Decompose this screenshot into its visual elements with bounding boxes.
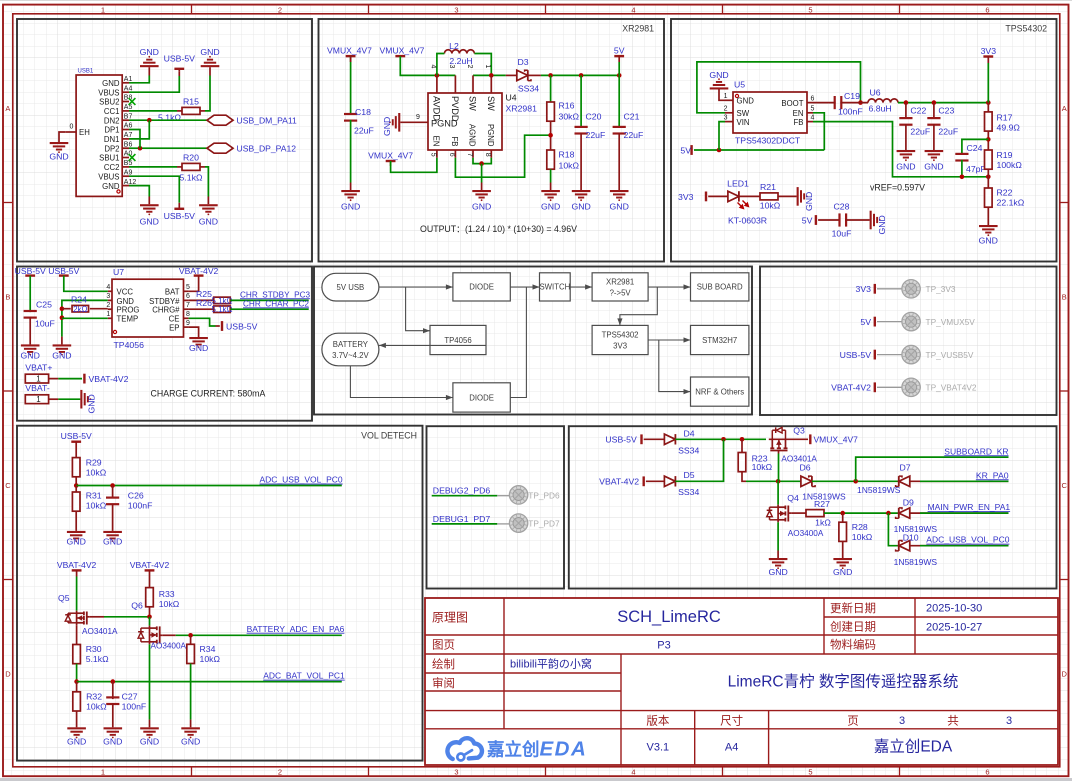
svg-text:TP4056: TP4056 [114, 340, 145, 350]
svg-text:5: 5 [430, 153, 437, 157]
svg-text:尺寸: 尺寸 [720, 714, 743, 728]
svg-text:GND: GND [103, 736, 122, 746]
svg-text:GND: GND [200, 47, 219, 57]
svg-text:AO3400A: AO3400A [151, 641, 187, 650]
wire VMUX to AVDD [400, 56, 455, 75]
flow BATTERY->DIODE2 [350, 366, 453, 398]
block DIODE (top) [453, 273, 510, 301]
chip U5 pin1 marker [735, 94, 738, 97]
svg-text:AO3401A: AO3401A [82, 627, 118, 636]
svg-text:GND: GND [181, 736, 200, 746]
U7 pin 7 lead [184, 308, 189, 310]
flow TPS->NRF [659, 340, 691, 392]
capacitor C26 [106, 497, 119, 499]
wire R29 to node [75, 477, 77, 486]
wire D10 to ADC [910, 545, 1009, 547]
svg-text:3: 3 [724, 114, 728, 121]
svg-text:7: 7 [186, 302, 190, 309]
frame column tick [191, 5, 193, 14]
power stem USB-5V bottom [178, 203, 180, 209]
svg-text:USB-5V: USB-5V [48, 266, 79, 276]
svg-text:C27: C27 [122, 692, 138, 702]
power flag VBAT-4V2 (D5) [643, 476, 645, 486]
wire ADC_USB_VOL_PC0 [76, 485, 342, 487]
testpoint lead TP_3V3 [877, 288, 902, 290]
power flag VBAT-4V2 (VBAT+) [83, 374, 85, 384]
testpoint lead TP_VUSB5V [877, 354, 902, 356]
svg-text:C26: C26 [128, 491, 144, 501]
resistor R15 lead right [200, 110, 205, 112]
svg-text:1: 1 [101, 5, 105, 14]
svg-text:6: 6 [985, 768, 989, 777]
wire GND A12 [129, 186, 149, 197]
LED LED1 arrows [738, 201, 749, 209]
wire U6 to 3V3 rail [898, 102, 988, 104]
panel box block-diagram [314, 267, 752, 415]
resistor R25 [214, 297, 231, 304]
GND stem (Q6) [149, 720, 151, 728]
diode D7 1N5819WS [899, 476, 910, 486]
power stem VBAT Q5 [76, 570, 78, 576]
svg-text:CHR_STDBY_PC3: CHR_STDBY_PC3 [240, 290, 311, 299]
testpoint pad TP_PD7 [509, 514, 527, 532]
wire R34 to GND [190, 664, 192, 720]
svg-text:GND: GND [140, 47, 159, 57]
block BATTERY (stadium) [322, 333, 379, 366]
svg-text:3: 3 [1006, 715, 1012, 727]
wire R30 to node [76, 664, 78, 682]
svg-text:XR2981: XR2981 [622, 24, 654, 34]
ground (R18) [541, 190, 560, 192]
svg-text:USB-5V: USB-5V [61, 431, 92, 441]
wire R15 to GND [205, 76, 210, 111]
svg-text:R16: R16 [559, 101, 575, 111]
svg-text:VBAT-4V2: VBAT-4V2 [57, 560, 97, 570]
junction C21/5V node [617, 73, 622, 78]
resistor R24 [72, 305, 89, 312]
svg-text:USB1: USB1 [78, 69, 94, 75]
ground (EH) [50, 142, 69, 144]
svg-text:SUBBOARD_KR: SUBBOARD_KR [944, 446, 1008, 456]
svg-text:R27: R27 [814, 499, 830, 509]
svg-text:D: D [5, 670, 11, 679]
svg-text:10kΩ: 10kΩ [200, 654, 221, 664]
svg-text:SBU1: SBU1 [99, 154, 119, 163]
transistor Q4 AO3400A [777, 505, 779, 523]
resistor R22 [985, 188, 993, 207]
svg-text:10kΩ: 10kΩ [86, 702, 107, 712]
svg-text:A1: A1 [124, 76, 133, 83]
junction SUBBOARD node [853, 479, 858, 484]
junction C19/U6 node [858, 100, 863, 105]
svg-text:5: 5 [186, 284, 190, 291]
U4 pin 6 lead [454, 150, 456, 158]
svg-text:GND: GND [189, 343, 208, 353]
svg-text:DEBUG1_PD7: DEBUG1_PD7 [433, 514, 491, 524]
svg-text:GND: GND [341, 202, 360, 212]
svg-text:C: C [5, 481, 11, 490]
svg-text:USB-5V: USB-5V [226, 321, 258, 331]
JLC EDA logo cloud [447, 738, 482, 760]
testpoint pad TP_VBAT4V2 [902, 378, 920, 396]
svg-text:100nF: 100nF [122, 702, 147, 712]
U5 pin 5 lead [807, 112, 813, 114]
wire Q6 gate net [176, 634, 342, 636]
frame column tick [368, 5, 370, 14]
GND stem (top1) [148, 67, 150, 75]
flow XR2981->SUBBOARD [648, 286, 690, 288]
wire KR_PA0 green [920, 480, 1009, 482]
svg-text:TP_PD6: TP_PD6 [528, 490, 560, 500]
wire Q6 source to GND [149, 644, 151, 719]
power flag 5V (C28) [815, 215, 817, 225]
svg-text:R20: R20 [183, 153, 199, 163]
wire output rail [541, 74, 619, 76]
svg-text:?->5V: ?->5V [610, 288, 632, 297]
svg-text:USB-5V: USB-5V [164, 211, 196, 221]
title block line [425, 690, 621, 692]
svg-text:GND: GND [87, 394, 97, 413]
title block line [694, 711, 696, 765]
svg-text:C21: C21 [624, 111, 640, 121]
wire Q4 drain [777, 481, 779, 504]
svg-text:VMUX_4V7: VMUX_4V7 [368, 150, 413, 160]
power flag USB-5V (C25) [25, 274, 35, 276]
diode D3 lead right [528, 74, 541, 76]
capacitor C20 [575, 126, 588, 128]
ground (pin9) sideways [398, 113, 400, 132]
U4 pin 8 lead [490, 150, 492, 158]
svg-text:1kΩ: 1kΩ [815, 517, 831, 527]
wire C22 to GND [905, 124, 907, 150]
svg-text:VBAT-4V2: VBAT-4V2 [179, 266, 219, 276]
U7 pin 1 lead [108, 317, 112, 319]
U4 pin 7 lead [472, 150, 474, 158]
svg-text:47pF: 47pF [966, 164, 986, 174]
svg-text:5: 5 [811, 106, 815, 113]
svg-text:1: 1 [484, 65, 491, 69]
GND stem (C18) [350, 183, 352, 191]
wire node to R34 [190, 635, 192, 644]
svg-text:R24: R24 [71, 294, 87, 304]
resistor R33 [146, 588, 154, 607]
title block line [914, 598, 916, 654]
wire DN2 to port [129, 119, 207, 121]
svg-text:R30: R30 [86, 644, 102, 654]
power flag USB-5V (top) [174, 68, 184, 70]
svg-text:49.9Ω: 49.9Ω [997, 123, 1021, 133]
svg-text:9: 9 [416, 114, 420, 121]
wire Q3 to VMUX [789, 438, 808, 440]
svg-text:3V3: 3V3 [856, 284, 872, 294]
svg-text:GND: GND [709, 70, 728, 80]
svg-text:KR_PA0: KR_PA0 [976, 470, 1009, 480]
svg-text:10kΩ: 10kΩ [760, 200, 781, 210]
wire BOOT to C19 [813, 102, 836, 104]
USB1 pin B6 DP2 lead [122, 147, 129, 149]
flow TP4056->BATTERY [379, 344, 486, 346]
svg-text:VBAT-4V2: VBAT-4V2 [831, 383, 871, 393]
title block line [824, 616, 1058, 618]
svg-text:GND: GND [140, 217, 159, 227]
svg-text:VBAT+: VBAT+ [25, 363, 52, 373]
wire AGND/PGND to GND [473, 158, 491, 164]
wire VMUX to C18 [350, 56, 352, 115]
power flag USB-5V (R29) [71, 441, 81, 443]
ground (top 1) [140, 65, 159, 67]
diode D6 1N5819WS [801, 476, 812, 486]
USB1 pin A1 GND lead [122, 82, 129, 84]
svg-text:BATTERY_ADC_EN_PA6: BATTERY_ADC_EN_PA6 [247, 624, 345, 634]
svg-text:USB-5V: USB-5V [840, 350, 872, 360]
wire FB net [455, 135, 550, 177]
svg-text:2: 2 [724, 106, 728, 113]
svg-text:5V: 5V [860, 317, 871, 327]
svg-text:R21: R21 [760, 182, 776, 192]
svg-text:VCC: VCC [117, 288, 134, 297]
svg-text:U4: U4 [506, 93, 517, 103]
GND stem (R34) [190, 720, 192, 728]
svg-text:vREF=0.597V: vREF=0.597V [870, 182, 925, 192]
title block line [768, 711, 770, 765]
svg-text:ADC_USB_VOL_PC0: ADC_USB_VOL_PC0 [260, 475, 343, 485]
wire R23 stem [741, 439, 743, 452]
svg-text:AVDD: AVDD [431, 96, 441, 121]
capacitor C21 [613, 126, 626, 128]
block 5V USB (stadium) [322, 273, 379, 301]
diode D10 1N5819WS [899, 541, 910, 551]
svg-text:GND: GND [67, 736, 86, 746]
inductor L2 [444, 50, 474, 54]
wire 5V to rail [618, 62, 620, 75]
svg-text:GND: GND [140, 736, 159, 746]
svg-text:100nF: 100nF [128, 501, 153, 511]
svg-text:R17: R17 [997, 113, 1013, 123]
capacitor C22 [899, 117, 912, 119]
svg-text:5.1kΩ: 5.1kΩ [211, 305, 232, 314]
svg-text:3V3: 3V3 [613, 342, 627, 351]
wire R28 stem [842, 513, 844, 522]
resistor R32 [73, 692, 81, 711]
testpoint lead TP_PD7 [497, 523, 510, 525]
net port USB_DM_PA11 [207, 115, 233, 125]
svg-text:EP: EP [169, 324, 179, 333]
power flag VMUX_4V7 (EN) [386, 160, 396, 162]
svg-text:22uF: 22uF [624, 130, 644, 140]
junction C24 node [960, 175, 965, 180]
svg-text:物料编码: 物料编码 [830, 638, 876, 652]
resistor R20 lead right [200, 166, 205, 168]
USB1 pin 1 marker [117, 190, 120, 193]
svg-text:3: 3 [448, 65, 455, 69]
svg-text:3V3: 3V3 [981, 46, 997, 56]
junction R17/R19 node [986, 137, 991, 142]
testpoint pad TP_PD6 [509, 486, 527, 504]
junction C23 node [932, 100, 937, 105]
power flag USB-5V (CE) [221, 321, 223, 331]
wire R32 to GND [76, 711, 78, 727]
resistor R27 [806, 510, 824, 517]
wire SUBBOARD_KR riser [856, 457, 1009, 481]
chip U7 pin1 marker [113, 330, 116, 333]
svg-text:2kΩ: 2kΩ [73, 305, 87, 314]
title block line [503, 598, 505, 729]
wire 5V rail [694, 149, 824, 151]
power stem 5V [618, 56, 620, 62]
wire C25 to GND [29, 317, 31, 345]
svg-text:NRF & Others: NRF & Others [695, 387, 744, 396]
svg-text:GND: GND [52, 350, 71, 360]
wire Q4 source to GND [777, 522, 779, 550]
wire R18 to GND [550, 169, 552, 182]
svg-text:OUTPUT：(1.24 / 10) * (10+30) =: OUTPUT：(1.24 / 10) * (10+30) = 4.96V [420, 224, 577, 234]
svg-text:USB-5V: USB-5V [164, 54, 196, 64]
wire EN drop [813, 113, 824, 150]
svg-text:GND: GND [382, 117, 392, 136]
capacitor C28 [838, 213, 840, 226]
svg-text:3: 3 [454, 768, 458, 777]
svg-text:GND: GND [804, 192, 814, 211]
ground (R31) [67, 531, 86, 533]
USB1 pin A4 VBUS lead [122, 91, 129, 93]
svg-text:TEMP: TEMP [117, 315, 139, 324]
U7 pin 3 lead [108, 299, 112, 301]
wire SW to D3 [506, 74, 517, 76]
svg-text:SBU2: SBU2 [99, 98, 119, 107]
power flag VMUX_4V7 (U4) [395, 55, 405, 57]
resistor R17 [985, 112, 993, 131]
svg-text:CC2: CC2 [104, 163, 120, 172]
svg-text:LED1: LED1 [727, 179, 749, 189]
wire R16 to R18 [550, 121, 552, 150]
svg-text:D3: D3 [517, 57, 528, 67]
wire node to C26 [112, 486, 114, 499]
junction AVDD node [435, 73, 440, 78]
svg-text:6.8uH: 6.8uH [869, 104, 892, 114]
power flag 3V3 (LED1) [705, 192, 707, 202]
wire C23 to GND [933, 124, 935, 150]
svg-text:SS34: SS34 [678, 487, 699, 497]
svg-text:Q4: Q4 [787, 493, 799, 503]
U5 pin 1 lead [725, 99, 733, 101]
svg-text:Q6: Q6 [131, 601, 143, 611]
wire SW rail [473, 74, 506, 76]
wire CHRG to R26 [189, 308, 214, 310]
svg-text:嘉立创EDA: 嘉立创EDA [486, 738, 587, 761]
ground (Q4) [769, 558, 788, 560]
ground (R21) sideways [797, 187, 799, 206]
wire DP2 to port [129, 147, 207, 149]
U4 pin 3 lead [454, 75, 456, 93]
svg-text:GND: GND [896, 162, 915, 172]
svg-text:5V: 5V [680, 146, 691, 156]
wire EN to VMUX [391, 158, 437, 173]
wire ADC_BAT_VOL_PC1 [77, 681, 342, 683]
GND stem (pin3) [61, 337, 63, 345]
ground (pin3) [53, 344, 72, 346]
svg-text:BAT: BAT [165, 288, 180, 297]
resistor R31 [72, 492, 80, 511]
junction R19/R22 node [986, 175, 991, 180]
diode D4 SS34 [664, 434, 675, 444]
testpoint pad TP_3V3 [902, 280, 920, 298]
power flag 3V3 [983, 55, 993, 57]
flow 5VUSB->DIODE [379, 286, 453, 288]
svg-text:1: 1 [106, 311, 110, 318]
transistor Q6 AO3400A [149, 626, 151, 645]
svg-text:Q3: Q3 [793, 426, 805, 436]
svg-text:USB_DP_PA12: USB_DP_PA12 [237, 144, 297, 154]
svg-text:PGND: PGND [431, 119, 458, 129]
GND stem (Q4) [777, 551, 779, 559]
connector VBAT- lead [49, 398, 59, 400]
ground (C28) sideways [870, 211, 872, 230]
svg-text:L2: L2 [449, 41, 459, 51]
title block line [425, 653, 1058, 655]
wire R21 to GND [778, 195, 797, 197]
svg-text:SUB BOARD: SUB BOARD [697, 283, 743, 292]
wire Q4 gate to R27 [791, 512, 806, 514]
wire DN1 tie [129, 120, 149, 139]
svg-text:1: 1 [724, 93, 728, 100]
svg-text:EN: EN [431, 136, 440, 147]
svg-text:10kΩ: 10kΩ [852, 532, 873, 542]
transistor Q5 AO3401A [76, 611, 78, 626]
U4 pin 4 lead [436, 75, 438, 93]
svg-text:A: A [5, 104, 10, 113]
wire rail to R16 [550, 75, 552, 102]
svg-text:4: 4 [430, 65, 437, 69]
wire D5 to node [675, 439, 723, 481]
USB1 pin A5 CC1 lead [122, 110, 129, 112]
svg-text:DIODE: DIODE [469, 283, 494, 292]
power flag VBAT-4V2 (BAT) [194, 274, 204, 276]
wire node to Q6 [149, 617, 151, 626]
wire MAIN_PWR green [920, 512, 1009, 514]
U4 pin 5 lead [436, 150, 438, 158]
svg-text:4: 4 [631, 768, 635, 777]
svg-text:R31: R31 [86, 491, 102, 501]
wire D10 branch [888, 513, 898, 546]
chip U7 body [112, 279, 184, 337]
wire Q3 gate drop [778, 454, 780, 482]
svg-text:22.1kΩ: 22.1kΩ [997, 197, 1025, 207]
svg-text:SW: SW [737, 109, 750, 118]
capacitor C19 [834, 96, 836, 109]
svg-text:GND: GND [979, 236, 998, 246]
wire D9 to MAIN_PWR [910, 512, 1009, 514]
GND stem (top2) [209, 67, 211, 75]
svg-text:GND: GND [103, 537, 122, 547]
wire TEMP [62, 317, 108, 319]
wire VBAT- to GND [58, 398, 80, 400]
ground (bottom right) [199, 204, 218, 206]
power flag VBAT-4V2 (TP) [874, 382, 876, 392]
frame column tick [722, 5, 724, 14]
svg-text:D4: D4 [684, 429, 695, 439]
svg-text:C22: C22 [910, 106, 926, 116]
svg-text:P3: P3 [657, 640, 670, 652]
svg-text:TPS54302: TPS54302 [1005, 24, 1047, 34]
junction D4/D5 node [721, 437, 726, 442]
wire C28 to GND [845, 219, 869, 221]
wire R27 to D9 [824, 512, 899, 514]
wire 3V3 to LED1 [708, 195, 728, 197]
flow DIODE->SWITCH [510, 286, 539, 288]
svg-text:A4: A4 [725, 742, 738, 754]
ground (C20) [572, 190, 591, 192]
junction C27 node [111, 679, 116, 684]
